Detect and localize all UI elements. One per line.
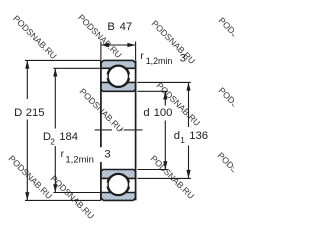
ball top [108, 66, 128, 86]
svg-text:PODSNAB.RU: PODSNAB.RU [149, 153, 197, 201]
dimension D extension bottom [25, 199, 101, 201]
svg-text:3: 3 [180, 52, 186, 64]
outer ring top section [101, 60, 136, 68]
svg-text:PODSNAB.RU: PODSNAB.RU [11, 13, 59, 61]
svg-text:r: r [140, 51, 144, 62]
svg-text:PODSNAB.RU: PODSNAB.RU [155, 80, 203, 128]
svg-text:1,2min: 1,2min [146, 56, 173, 66]
svg-text:1: 1 [180, 135, 185, 145]
dimension d arrow up [163, 91, 167, 99]
centerline [95, 129, 143, 131]
dimension d extension top [137, 90, 167, 92]
dimension d1 arrow down [186, 170, 190, 179]
dimension d1 line [188, 82, 190, 178]
svg-text:47: 47 [120, 21, 133, 33]
svg-text:215: 215 [26, 107, 45, 119]
inner race shoulder wedge left [108, 78, 111, 83]
svg-text:1,2min: 1,2min [65, 154, 94, 165]
bearing top half-section [101, 60, 136, 91]
svg-text:2: 2 [50, 137, 55, 147]
dimension D2 arrow up [53, 68, 57, 76]
dimension B arrow right [127, 43, 135, 47]
dimension d extension bottom [137, 169, 167, 171]
dimension D2 extension bottom [53, 192, 101, 194]
left face line [100, 60, 102, 200]
dimension B extension lines [101, 42, 136, 61]
svg-text:PODSNAB.RU: PODSNAB.RU [7, 153, 55, 201]
dimension d1 extension top [137, 81, 190, 83]
svg-text:3: 3 [104, 148, 110, 160]
svg-text:PODSNAB.RU: PODSNAB.RU [217, 15, 234, 63]
inner race shoulder wedge right [126, 78, 129, 83]
right face line [135, 60, 137, 200]
inner ring race groove [107, 65, 129, 87]
svg-text:d: d [174, 130, 180, 142]
dimension D extension top [25, 59, 101, 61]
svg-text:D: D [14, 107, 22, 119]
svg-text:PODSNAB.RU: PODSNAB.RU [217, 85, 234, 133]
svg-text:PODSNAB.RU: PODSNAB.RU [216, 150, 234, 198]
outer race shoulder wedge left [108, 69, 111, 74]
dimension d1 extension bottom [137, 177, 190, 179]
dimension D2 line [54, 68, 56, 192]
dimension D arrow up [25, 60, 29, 68]
svg-text:100: 100 [154, 107, 173, 119]
dimension D arrow down [25, 192, 29, 200]
dimension D2 extension top [53, 67, 101, 69]
bearing bottom half-section (mirror) [101, 169, 136, 200]
dimension D2 arrow down [53, 184, 57, 192]
outer ring race groove [107, 65, 129, 87]
dimension B arrow left [101, 43, 109, 47]
dimension d1 arrow up [186, 82, 190, 90]
outer race shoulder wedge right [126, 69, 129, 74]
dimension d line [164, 91, 166, 169]
dimension D line [26, 60, 28, 200]
svg-text:d: d [143, 107, 149, 119]
svg-text:136: 136 [189, 130, 208, 142]
dimension d arrow down [163, 161, 167, 169]
svg-text:PODSNAB.RU: PODSNAB.RU [76, 12, 124, 60]
svg-text:B: B [107, 21, 115, 33]
inner ring top section [101, 82, 136, 91]
svg-text:r: r [61, 149, 65, 160]
dimension B line [101, 44, 136, 46]
svg-text:184: 184 [59, 131, 78, 143]
